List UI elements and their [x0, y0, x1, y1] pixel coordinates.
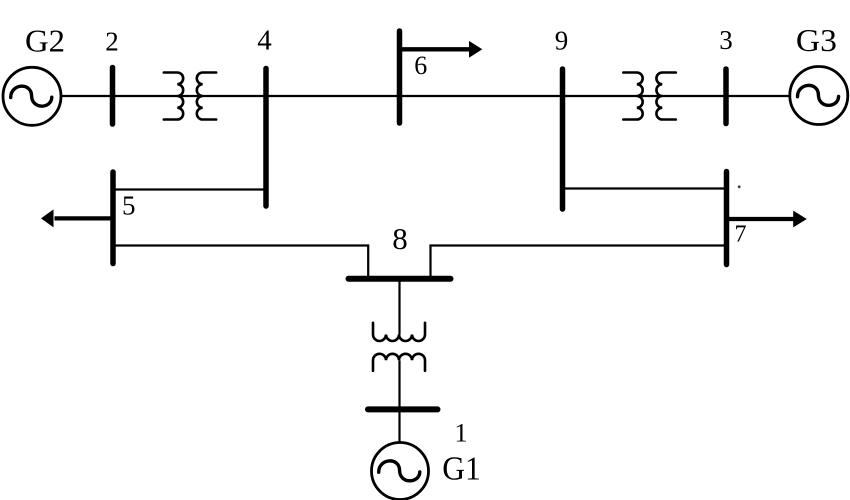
bus 7: [724, 172, 730, 265]
svg-text:G3: G3: [796, 22, 837, 58]
load arrow at bus 7: [727, 211, 807, 228]
svg-text:3: 3: [719, 25, 733, 55]
generator G2: [3, 67, 61, 125]
load arrow at bus 5: [41, 209, 112, 227]
bus 5: [110, 172, 116, 264]
svg-text:8: 8: [392, 221, 408, 256]
wire: transformer T1 to bus 1: [398, 360, 400, 409]
transformer T2 (2-4) right coil: [197, 73, 216, 120]
wire: bus 7 to bus 8: [431, 246, 727, 279]
svg-text:1: 1: [454, 418, 467, 448]
bus 6: [397, 31, 403, 123]
svg-text:G1: G1: [442, 451, 481, 488]
generator G1: [372, 443, 429, 500]
bus 2: [110, 68, 116, 125]
wire: bus 8 to transformer T1: [398, 279, 400, 335]
svg-text:5: 5: [122, 191, 136, 221]
svg-text:6: 6: [414, 51, 427, 80]
transformer T2 (2-4) left coil: [164, 73, 183, 120]
svg-text:4: 4: [257, 25, 272, 57]
transformer T3 (9-3) right coil: [656, 73, 675, 120]
svg-text:G2: G2: [25, 23, 65, 59]
bus 1: [368, 406, 438, 412]
bus 4: [263, 69, 269, 207]
load arrow at bus 6: [401, 41, 482, 58]
wire: bus 1 to generator G1: [398, 409, 400, 442]
transformer T1 (8-1) top winding: [373, 323, 425, 341]
wire: bus 5 to bus 8: [113, 246, 368, 279]
transformer T3 (9-3) left coil: [623, 73, 642, 120]
generator G3: [790, 67, 848, 125]
transformer T1 (8-1) bottom winding: [373, 354, 425, 371]
bus 9: [560, 69, 566, 209]
bus 3: [723, 69, 729, 124]
bus 8: [349, 276, 451, 282]
stray ink speck near bus 7: [738, 185, 741, 188]
wire: bus 9 to bus 7: [563, 187, 727, 189]
svg-text:9: 9: [555, 25, 569, 55]
wire: main top line G2-2-4-6-9-3-G3: [62, 95, 790, 97]
svg-text:7: 7: [735, 221, 747, 247]
wire: bus 5 to bus 4: [113, 188, 266, 190]
svg-text:2: 2: [105, 27, 119, 57]
